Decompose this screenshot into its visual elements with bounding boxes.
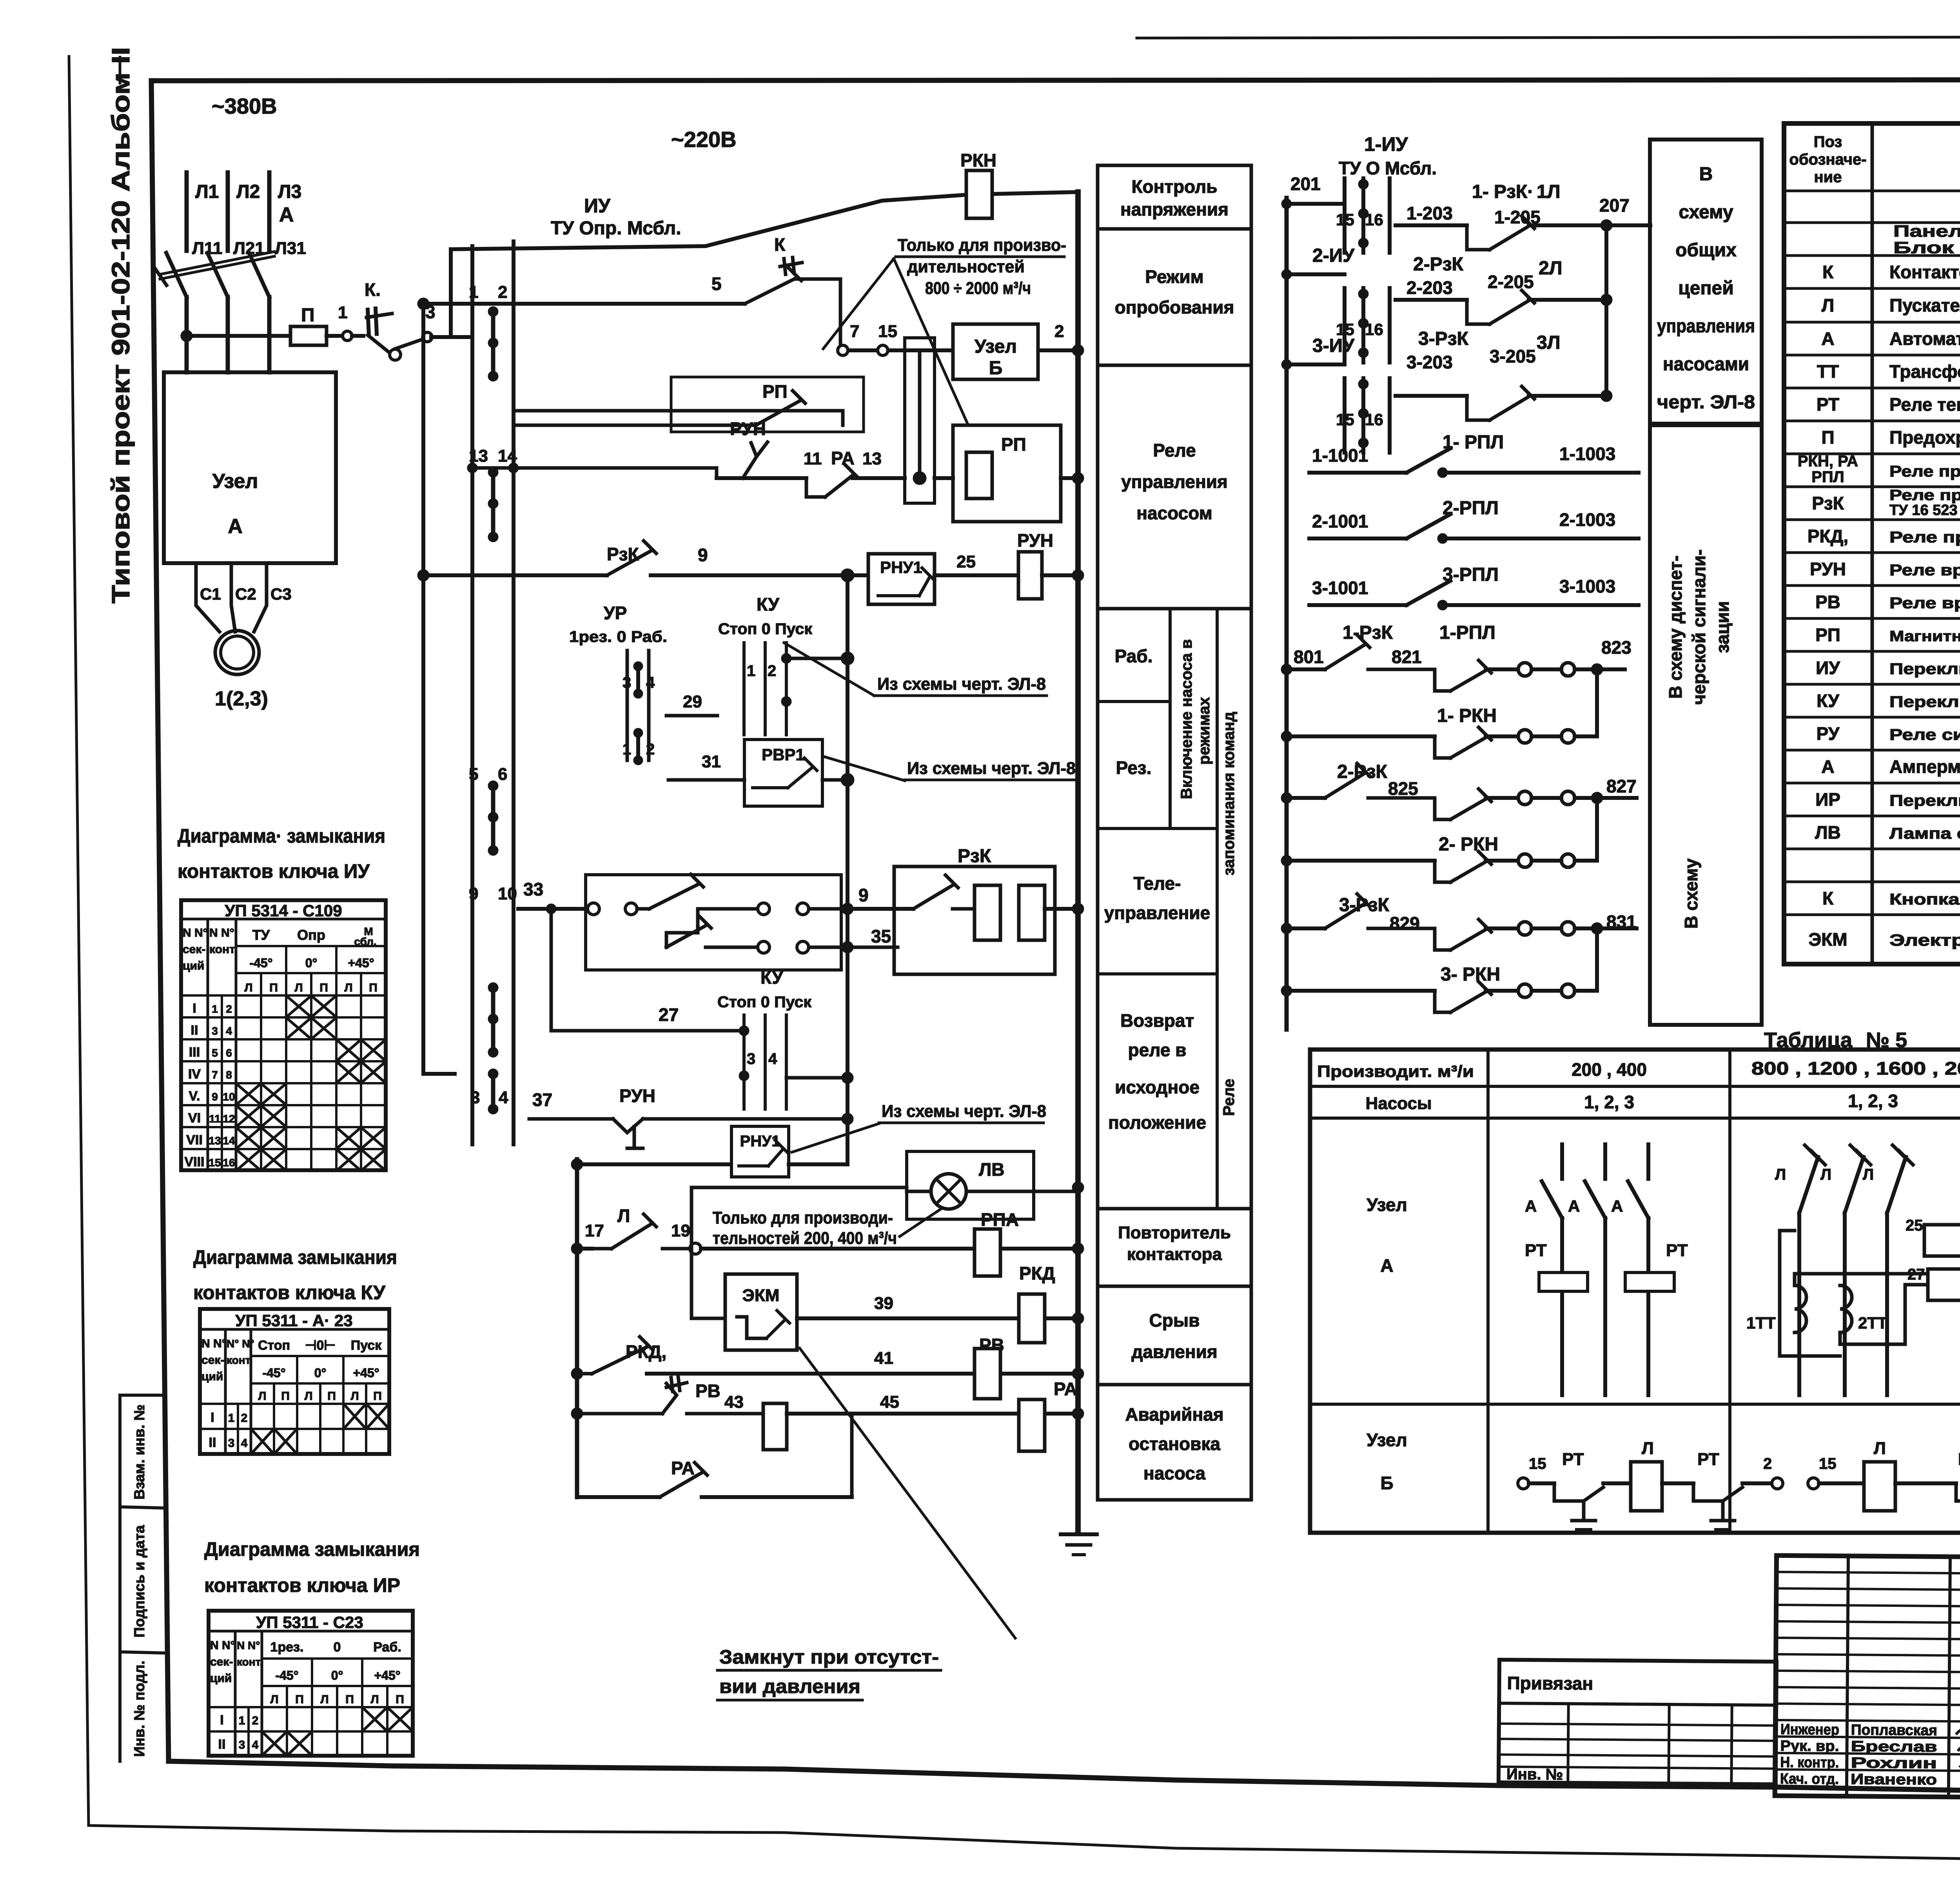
svg-text:РВ: РВ <box>695 1381 720 1401</box>
svg-text:6: 6 <box>226 1047 232 1059</box>
svg-text:19: 19 <box>671 1221 690 1240</box>
svg-text:3: 3 <box>622 674 631 691</box>
svg-text:11: 11 <box>804 449 822 468</box>
svg-text:С3: С3 <box>270 585 292 603</box>
svg-text:Стоп 0 Пуск: Стоп 0 Пуск <box>717 993 812 1011</box>
svg-text:Опр: Опр <box>297 927 325 943</box>
svg-text:черской сигнали-: черской сигнали- <box>1689 549 1709 705</box>
svg-text:3-ИУ: 3-ИУ <box>1312 335 1355 356</box>
svg-text:Пуск: Пуск <box>351 1338 382 1353</box>
svg-text:РТ: РТ <box>1817 394 1839 415</box>
svg-text:825: 825 <box>1388 778 1418 799</box>
svg-text:N N°: N N° <box>237 1639 260 1651</box>
svg-text:Теле-: Теле- <box>1134 873 1181 894</box>
svg-text:П: П <box>1821 427 1834 448</box>
svg-text:П: П <box>269 981 278 994</box>
svg-text:РТ: РТ <box>1562 1450 1584 1469</box>
svg-text:РА: РА <box>671 1458 695 1478</box>
svg-text:Л31: Л31 <box>275 239 306 258</box>
svg-text:3: 3 <box>228 1437 235 1450</box>
svg-text:0°: 0° <box>331 1668 343 1682</box>
svg-text:823: 823 <box>1601 637 1632 658</box>
svg-text:РУН: РУН <box>1810 559 1846 579</box>
svg-text:ТУ: ТУ <box>252 927 270 943</box>
svg-text:2: 2 <box>768 662 776 680</box>
svg-text:П: П <box>281 1390 290 1403</box>
svg-text:дительностей: дительностей <box>907 257 1025 276</box>
svg-text:КУ: КУ <box>760 967 784 988</box>
svg-text:Диаграмма замыкания: Диаграмма замыкания <box>204 1538 420 1560</box>
svg-text:43: 43 <box>724 1392 744 1412</box>
svg-text:16: 16 <box>1365 320 1383 339</box>
svg-text:В: В <box>1699 164 1713 185</box>
svg-text:ИР: ИР <box>1815 789 1840 810</box>
svg-text:0°: 0° <box>314 1366 327 1380</box>
svg-text:III: III <box>189 1045 200 1060</box>
svg-text:II: II <box>218 1737 226 1752</box>
svg-text:ций: ций <box>183 959 204 972</box>
svg-text:1(2,3): 1(2,3) <box>215 687 268 710</box>
svg-text:0: 0 <box>334 1640 341 1655</box>
svg-text:С2: С2 <box>235 585 256 603</box>
svg-text:2: 2 <box>241 1412 248 1425</box>
svg-text:1рез. 0 Раб.: 1рез. 0 Раб. <box>569 628 667 645</box>
svg-text:обозначе-: обозначе- <box>1789 151 1866 168</box>
svg-text:КУ: КУ <box>757 594 780 615</box>
svg-text:1: 1 <box>239 1714 245 1727</box>
svg-text:режимах: режимах <box>1196 697 1213 765</box>
svg-text:Раб.: Раб. <box>373 1640 401 1655</box>
svg-text:К: К <box>1822 262 1834 282</box>
svg-text:4: 4 <box>226 1025 232 1037</box>
svg-text:3: 3 <box>470 1088 480 1107</box>
svg-text:13: 13 <box>209 1135 221 1147</box>
svg-text:Стоп 0 Пуск: Стоп 0 Пуск <box>718 620 813 638</box>
svg-text:РзК: РзК <box>607 544 639 564</box>
svg-text:27: 27 <box>659 1004 679 1025</box>
svg-text:1рез.: 1рез. <box>270 1640 304 1655</box>
svg-text:Панель управления РПУ: Панель управления РПУ <box>1893 222 1960 240</box>
svg-text:Бреслав: Бреслав <box>1851 1738 1937 1755</box>
svg-text:Л: Л <box>617 1206 630 1226</box>
svg-text:насоса: насоса <box>1143 1463 1206 1483</box>
svg-text:ТУ 16 523 - 072 - 75: ТУ 16 523 - 072 - 75 <box>1889 502 1960 518</box>
svg-text:ЭКМ: ЭКМ <box>1808 929 1847 950</box>
svg-text:контактора: контактора <box>1127 1245 1222 1264</box>
svg-text:8: 8 <box>226 1069 232 1081</box>
svg-text:3Л: 3Л <box>1537 332 1560 353</box>
svg-text:Раб.: Раб. <box>1115 646 1153 666</box>
svg-text:+45°: +45° <box>374 1668 400 1682</box>
svg-text:РКД,: РКД, <box>626 1341 666 1362</box>
svg-text:0°: 0° <box>305 956 318 970</box>
svg-text:2: 2 <box>252 1714 259 1727</box>
svg-text:5: 5 <box>469 765 478 784</box>
svg-text:П: П <box>396 1693 404 1706</box>
svg-text:РТ: РТ <box>1525 1241 1547 1260</box>
svg-text:РУН: РУН <box>1017 530 1053 551</box>
svg-text:зации: зации <box>1712 601 1733 653</box>
svg-text:-45°: -45° <box>262 1366 285 1380</box>
svg-text:-45°: -45° <box>249 956 272 970</box>
svg-text:1-203: 1-203 <box>1406 203 1453 223</box>
svg-text:УП 5314 - С109: УП 5314 - С109 <box>225 901 342 920</box>
svg-text:15: 15 <box>1336 210 1354 229</box>
svg-text:2: 2 <box>646 741 655 758</box>
svg-text:запоминания команд: запоминания команд <box>1220 712 1238 876</box>
svg-text:9: 9 <box>212 1091 218 1103</box>
svg-text:вии давления: вии давления <box>719 1675 860 1697</box>
svg-text:2-1001: 2-1001 <box>1312 511 1368 531</box>
svg-text:II: II <box>209 1435 216 1450</box>
svg-text:~380В: ~380В <box>212 94 277 118</box>
svg-text:ЛВ: ЛВ <box>979 1159 1005 1180</box>
svg-text:РзК: РзК <box>958 846 991 867</box>
svg-text:Л: Л <box>294 981 303 994</box>
svg-text:контактов ключа КУ: контактов ключа КУ <box>193 1282 386 1303</box>
svg-text:ТУ Опр. Мсбл.: ТУ Опр. Мсбл. <box>551 218 681 239</box>
svg-text:А: А <box>228 515 243 538</box>
svg-text:33: 33 <box>523 879 543 899</box>
svg-text:2-РзК: 2-РзК <box>1337 761 1388 782</box>
svg-text:РНУ1: РНУ1 <box>880 558 922 576</box>
svg-text:А: А <box>1525 1197 1537 1215</box>
svg-text:Рез.: Рез. <box>1116 758 1152 778</box>
svg-text:Инв. № подл.: Инв. № подл. <box>131 1661 147 1757</box>
svg-text:Из схемы черт. ЭЛ-8: Из схемы черт. ЭЛ-8 <box>877 674 1046 694</box>
svg-text:Узел: Узел <box>1367 1195 1407 1215</box>
svg-text:ТТ: ТТ <box>1817 361 1839 382</box>
svg-text:остановка: остановка <box>1129 1434 1220 1454</box>
svg-text:С1: С1 <box>200 585 221 603</box>
svg-text:контактов ключа ИУ: контактов ключа ИУ <box>178 860 370 882</box>
svg-text:Привязан: Привязан <box>1507 1673 1593 1694</box>
svg-text:1- РКН: 1- РКН <box>1437 705 1497 726</box>
svg-text:-45°: -45° <box>275 1668 298 1682</box>
svg-text:25: 25 <box>1906 1217 1923 1234</box>
svg-text:I: I <box>211 1410 214 1425</box>
svg-text:3-205: 3-205 <box>1490 346 1536 366</box>
svg-text:К: К <box>774 234 786 255</box>
svg-text:VII: VII <box>186 1133 203 1148</box>
svg-text:4: 4 <box>241 1437 248 1450</box>
svg-text:Л2: Л2 <box>236 181 260 202</box>
svg-text:2: 2 <box>1054 322 1064 341</box>
svg-text:РУН: РУН <box>619 1086 655 1106</box>
svg-text:17: 17 <box>585 1221 604 1240</box>
svg-text:сек-: сек- <box>210 1655 233 1668</box>
svg-text:Поплавская: Поплавская <box>1851 1722 1937 1739</box>
svg-text:Только для производи-: Только для производи- <box>713 1208 893 1227</box>
svg-text:Л: Л <box>258 1390 266 1403</box>
svg-text:3-203: 3-203 <box>1406 352 1453 372</box>
svg-text:Типовой проект 901-02-120 А: Типовой проект 901-02-120 Альбом II <box>107 47 135 604</box>
svg-text:25: 25 <box>956 552 976 571</box>
svg-text:Стоп: Стоп <box>258 1338 290 1353</box>
svg-text:5: 5 <box>711 274 722 294</box>
svg-text:ТУ О Мсбл.: ТУ О Мсбл. <box>1339 158 1437 178</box>
svg-text:Режим: Режим <box>1145 266 1203 287</box>
svg-text:15: 15 <box>1336 410 1354 429</box>
svg-text:РП: РП <box>1001 434 1026 455</box>
svg-text:Инженер: Инженер <box>1780 1721 1839 1738</box>
svg-text:39: 39 <box>874 1294 893 1313</box>
svg-text:Повторитель: Повторитель <box>1118 1223 1231 1242</box>
svg-text:1: 1 <box>469 283 478 302</box>
svg-text:Б: Б <box>1380 1473 1393 1493</box>
svg-text:Л: Л <box>244 981 252 994</box>
svg-text:45: 45 <box>880 1392 899 1412</box>
svg-text:тельностей 200, 400 м³/ч: тельностей 200, 400 м³/ч <box>713 1229 897 1248</box>
svg-text:общих: общих <box>1675 240 1737 261</box>
svg-text:РТ: РТ <box>1666 1241 1688 1260</box>
svg-text:1-РзК: 1-РзК <box>1343 622 1393 643</box>
svg-text:4: 4 <box>646 674 655 691</box>
svg-text:К: К <box>1822 888 1834 908</box>
svg-text:Блок управления ББУ: Блок управления ББУ <box>1893 238 1960 257</box>
svg-text:+45°: +45° <box>348 956 374 970</box>
svg-text:Узел: Узел <box>1367 1430 1407 1450</box>
svg-text:Аварийная: Аварийная <box>1125 1404 1223 1425</box>
svg-text:35: 35 <box>871 926 891 946</box>
svg-text:Поз: Поз <box>1814 133 1842 150</box>
svg-text:ние: ние <box>1814 169 1842 186</box>
svg-text:Предохранитель: Предохранитель <box>1889 427 1960 448</box>
svg-text:ЭКМ: ЭКМ <box>742 1286 780 1305</box>
svg-text:VIII: VIII <box>184 1155 204 1169</box>
svg-text:РВ: РВ <box>1815 592 1840 612</box>
svg-text:829: 829 <box>1390 913 1420 934</box>
svg-text:схему: схему <box>1679 202 1733 223</box>
svg-text:Л: Л <box>1822 295 1834 315</box>
svg-text:16: 16 <box>1365 410 1383 429</box>
svg-text:конт.: конт. <box>237 1656 263 1668</box>
svg-text:5: 5 <box>212 1047 218 1059</box>
svg-text:А: А <box>1611 1197 1623 1215</box>
svg-text:Л: Л <box>270 1693 278 1706</box>
svg-text:14: 14 <box>223 1135 235 1147</box>
svg-text:насосом: насосом <box>1136 503 1212 523</box>
svg-text:3: 3 <box>239 1738 245 1751</box>
svg-text:П: П <box>301 305 315 326</box>
svg-text:3- РКН: 3- РКН <box>1441 964 1500 985</box>
svg-text:Замкнут при отсутст-: Замкнут при отсутст- <box>719 1646 939 1668</box>
svg-text:12: 12 <box>223 1113 235 1125</box>
svg-text:исходное: исходное <box>1115 1077 1200 1097</box>
svg-text:27: 27 <box>1907 1266 1925 1283</box>
svg-text:Насосы: Насосы <box>1365 1094 1432 1113</box>
svg-text:N N°: N N° <box>209 926 234 939</box>
svg-text:15: 15 <box>1819 1455 1837 1472</box>
svg-text:Рук. вр.: Рук. вр. <box>1780 1738 1839 1755</box>
svg-text:Контактор: Контактор <box>1889 262 1960 282</box>
svg-text:Лампа сигнальная ЛС-1201И: Лампа сигнальная ЛС-1201ИУ2 ТУ16-535.930… <box>1889 825 1960 842</box>
svg-text:Контроль: Контроль <box>1131 176 1217 197</box>
svg-text:207: 207 <box>1599 195 1630 216</box>
svg-text:Инв. №: Инв. № <box>1506 1766 1563 1783</box>
svg-text:Амперметр: Амперметр <box>1889 756 1960 777</box>
svg-text:РПЛ: РПЛ <box>1811 468 1844 486</box>
svg-text:А: А <box>1821 328 1834 349</box>
svg-text:4: 4 <box>252 1738 259 1751</box>
svg-text:801: 801 <box>1294 647 1324 667</box>
svg-text:РП: РП <box>762 381 788 402</box>
svg-text:А: А <box>1821 756 1834 777</box>
svg-text:РПА: РПА <box>981 1209 1019 1230</box>
svg-text:9: 9 <box>858 885 869 905</box>
svg-text:1: 1 <box>747 662 755 680</box>
svg-text:УП 5311 - А· 23: УП 5311 - А· 23 <box>235 1311 352 1330</box>
svg-text:4: 4 <box>768 1050 777 1068</box>
svg-text:П: П <box>373 1390 382 1403</box>
svg-text:Л: Л <box>350 1390 359 1403</box>
svg-text:А: А <box>279 203 294 226</box>
svg-text:Л: Л <box>1874 1439 1886 1458</box>
svg-text:3-1003: 3-1003 <box>1559 576 1615 596</box>
svg-text:VI: VI <box>188 1111 201 1126</box>
svg-text:Л: Л <box>370 1693 379 1706</box>
svg-text:Переключатель УП 5311- С23 ТУ: Переключатель УП 5311- С23 ТУ16-524.074-… <box>1889 792 1960 809</box>
svg-text:1Л: 1Л <box>1537 181 1560 202</box>
svg-text:⊣0⊢: ⊣0⊢ <box>305 1338 336 1353</box>
svg-text:управление: управление <box>1104 903 1210 923</box>
svg-text:Кач. отд.: Кач. отд. <box>1780 1771 1839 1787</box>
svg-text:В схему диспет-: В схему диспет- <box>1665 555 1686 699</box>
svg-text:Л: Л <box>320 1693 328 1706</box>
svg-text:Переключатель УП5314-С109 ТУ: Переключатель УП5314-С109 ТУ16-524.074-7… <box>1889 660 1960 678</box>
svg-text:Переключатель УП5311-А23 ТУ1: Переключатель УП5311-А23 ТУ16-524.074-71 <box>1889 693 1960 711</box>
svg-text:УП 5311 - С23: УП 5311 - С23 <box>256 1613 363 1632</box>
svg-text:ИУ: ИУ <box>584 195 611 217</box>
svg-text:15: 15 <box>878 322 897 341</box>
svg-text:31: 31 <box>702 752 721 771</box>
svg-text:ций: ций <box>201 1370 223 1383</box>
svg-text:9: 9 <box>698 545 708 565</box>
svg-text:3: 3 <box>747 1050 755 1068</box>
svg-text:1-1003: 1-1003 <box>1559 444 1615 464</box>
svg-text:Магнитный пускатель ПМЕ-111У: Магнитный пускатель ПМЕ-111У3. ОСТ16-0.5… <box>1889 628 1960 645</box>
svg-text:29: 29 <box>683 692 702 711</box>
svg-text:1: 1 <box>622 741 631 758</box>
svg-text:827: 827 <box>1606 776 1637 796</box>
svg-text:15: 15 <box>1529 1455 1546 1472</box>
svg-text:6: 6 <box>498 765 507 784</box>
svg-text:управления: управления <box>1657 316 1755 337</box>
svg-text:2- РКН: 2- РКН <box>1439 834 1498 855</box>
svg-text:Диаграмма замыкания: Диаграмма замыкания <box>193 1246 397 1268</box>
svg-text:П: П <box>327 1390 336 1403</box>
svg-text:Автоматический выключатель: Автоматический выключатель <box>1889 328 1960 349</box>
svg-text:Н. контр.: Н. контр. <box>1780 1754 1839 1771</box>
svg-text:Л: Л <box>1775 1166 1786 1183</box>
svg-text:А: А <box>1568 1197 1580 1215</box>
svg-text:14: 14 <box>498 446 517 466</box>
svg-text:Л: Л <box>1642 1439 1654 1458</box>
svg-text:Иваненко: Иваненко <box>1851 1771 1937 1788</box>
svg-text:Только для произво-: Только для произво- <box>898 236 1066 255</box>
svg-text:РКН: РКН <box>960 150 996 170</box>
svg-text:РУН: РУН <box>730 419 766 439</box>
svg-text:2: 2 <box>226 1003 232 1015</box>
svg-text:РКД,: РКД, <box>1808 526 1848 546</box>
svg-text:контактов ключа ИР: контактов ключа ИР <box>204 1574 400 1596</box>
svg-text:конт.: конт. <box>209 943 237 956</box>
svg-text:4: 4 <box>499 1088 508 1107</box>
svg-text:управления: управления <box>1121 471 1228 492</box>
svg-text:Взам. инв. №: Взам. инв. № <box>131 1405 147 1500</box>
svg-text:Диаграмма· замыкания: Диаграмма· замыкания <box>178 825 385 847</box>
svg-text:821: 821 <box>1392 647 1422 667</box>
svg-text:N N°: N N° <box>210 1639 235 1652</box>
svg-text:ИУ: ИУ <box>1816 658 1840 678</box>
svg-text:2-203: 2-203 <box>1406 277 1453 298</box>
svg-text:Л: Л <box>344 981 352 994</box>
svg-text:Возврат: Возврат <box>1120 1010 1194 1031</box>
svg-text:3-РзК: 3-РзК <box>1418 328 1469 349</box>
svg-text:положение: положение <box>1108 1112 1206 1133</box>
svg-text:Л: Л <box>1863 1166 1874 1183</box>
svg-text:1ТТ: 1ТТ <box>1746 1314 1776 1332</box>
svg-text:П: П <box>295 1693 304 1706</box>
svg-text:~220В: ~220В <box>671 127 737 152</box>
svg-text:1: 1 <box>228 1412 235 1425</box>
svg-text:РКД: РКД <box>1019 1263 1055 1283</box>
svg-text:2: 2 <box>498 283 507 302</box>
svg-text:Реле промежуточное двухпозици: Реле промежуточное двухпозиционное РП12У… <box>1889 487 1960 504</box>
svg-text:10: 10 <box>223 1091 235 1103</box>
svg-text:N° N°: N° N° <box>227 1338 254 1350</box>
svg-text:1-1001: 1-1001 <box>1312 445 1368 466</box>
svg-text:2Л: 2Л <box>1539 258 1562 279</box>
svg-text:2-1003: 2-1003 <box>1559 509 1615 530</box>
svg-text:11: 11 <box>209 1113 221 1125</box>
svg-text:15: 15 <box>209 1157 221 1169</box>
svg-text:Реле: Реле <box>1153 440 1196 460</box>
svg-text:опробования: опробования <box>1115 297 1234 317</box>
svg-text:А: А <box>1380 1255 1393 1276</box>
svg-text:3: 3 <box>212 1025 218 1037</box>
svg-text:1: 1 <box>338 303 347 322</box>
svg-text:П: П <box>319 981 328 994</box>
svg-text:Рохлин: Рохлин <box>1851 1755 1937 1772</box>
svg-text:конт.: конт. <box>227 1354 253 1366</box>
svg-text:Реле времени ЭВ-247У4 - ТУ16: Реле времени ЭВ-247У4 - ТУ16.- 523-158-7… <box>1889 595 1960 612</box>
svg-text:РУ: РУ <box>1817 723 1840 744</box>
svg-text:Реле промежуточное РПУ-1-965У: Реле промежуточное РПУ-1-965У3 ТУ.16.523… <box>1889 463 1960 480</box>
svg-text:N N°: N N° <box>183 926 208 939</box>
svg-text:напряжения: напряжения <box>1120 199 1229 219</box>
svg-text:2-РзК: 2-РзК <box>1413 254 1464 275</box>
svg-text:РТ: РТ <box>1697 1450 1719 1469</box>
svg-text:РТ: РТ <box>1958 1450 1960 1469</box>
svg-text:200 , 400: 200 , 400 <box>1572 1059 1647 1080</box>
svg-text:1-ИУ: 1-ИУ <box>1364 133 1408 155</box>
svg-text:давления: давления <box>1131 1341 1218 1362</box>
svg-text:РВР1: РВР1 <box>762 745 805 764</box>
svg-text:Л21: Л21 <box>233 239 265 258</box>
svg-text:цепей: цепей <box>1678 278 1733 299</box>
svg-text:2: 2 <box>1763 1455 1772 1472</box>
svg-text:800 , 1200 , 1600 , 2000: 800 , 1200 , 1600 , 2000 <box>1751 1058 1960 1079</box>
svg-text:ций: ций <box>210 1672 232 1685</box>
svg-text:П: П <box>345 1693 354 1706</box>
svg-text:1-РПЛ: 1-РПЛ <box>1439 622 1495 643</box>
svg-text:1: 1 <box>212 1003 218 1015</box>
svg-text:I: I <box>220 1713 223 1728</box>
svg-text:Срыв: Срыв <box>1149 1310 1200 1331</box>
svg-text:Кнопка ПКУ15-19.121-54У2 ТУ1: Кнопка ПКУ15-19.121-54У2 ТУ16.526-333-74 <box>1889 891 1960 908</box>
svg-text:201: 201 <box>1290 174 1321 194</box>
